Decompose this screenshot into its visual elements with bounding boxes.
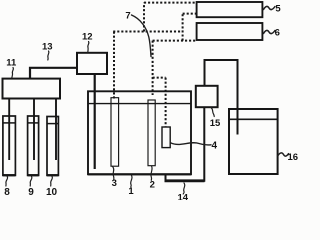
svg-text:4: 4 bbox=[212, 140, 218, 151]
leader 6 (tilde) bbox=[264, 30, 276, 33]
leader 16 (tilde) bbox=[278, 153, 289, 156]
wire dotted vertical to sensor 4 bbox=[165, 78, 167, 127]
electrode 3 bbox=[111, 98, 119, 167]
tube 8 bbox=[3, 116, 16, 175]
sensor 4 bbox=[162, 127, 170, 148]
leader 9 bbox=[30, 177, 32, 187]
wire dotted vertical to electrode 2 bbox=[152, 41, 154, 95]
leader 2 bbox=[151, 166, 152, 180]
tank 16 bbox=[229, 109, 278, 174]
wire dotted vertical x144 bbox=[143, 3, 145, 32]
liquid level in vessel bbox=[89, 103, 191, 105]
wire dotted vertical x182 bbox=[182, 14, 184, 41]
leader lines bbox=[6, 6, 289, 194]
electrode wire from box 12 bbox=[94, 74, 96, 169]
tube 10 bbox=[47, 117, 58, 176]
svg-text:5: 5 bbox=[275, 4, 281, 15]
pipe 14 bbox=[166, 107, 205, 180]
box 5 bbox=[197, 2, 263, 17]
leader 11 bbox=[12, 68, 14, 79]
wire dotted vertical to electrode 3 bbox=[113, 32, 115, 99]
leader 10 bbox=[51, 177, 53, 187]
wire 13 bbox=[30, 68, 77, 79]
svg-text:2: 2 bbox=[150, 179, 155, 190]
wire dotted horizontal to box 6 left bbox=[153, 40, 197, 42]
box 11 bbox=[3, 79, 61, 99]
leader 8 bbox=[6, 177, 8, 187]
svg-text:13: 13 bbox=[42, 42, 53, 53]
wire dotted horizontal to box 5 left bbox=[183, 13, 197, 15]
leader 13 bbox=[48, 51, 49, 60]
leader 15 bbox=[211, 108, 214, 117]
leader 3 bbox=[113, 167, 114, 180]
pipe from 15 to tank 16 bbox=[205, 60, 238, 135]
leader 5 (tilde) bbox=[264, 6, 276, 9]
leader 7 bbox=[132, 15, 152, 57]
svg-text:7: 7 bbox=[125, 10, 130, 21]
wire to tube 9 bbox=[33, 99, 35, 161]
vessel 1 bbox=[88, 91, 191, 174]
pump 15 bbox=[196, 86, 218, 107]
wire dotted branch horizontal y77 bbox=[153, 77, 166, 79]
wire to tube 8 bbox=[8, 99, 10, 161]
wire to tube 10 bbox=[55, 99, 57, 161]
wire dotted horizontal to box 5 top bbox=[144, 2, 197, 4]
svg-text:14: 14 bbox=[178, 192, 189, 200]
svg-text:15: 15 bbox=[210, 118, 221, 129]
svg-text:6: 6 bbox=[275, 27, 280, 38]
svg-text:8: 8 bbox=[4, 187, 10, 198]
leader 4 bbox=[171, 143, 212, 145]
box 6 bbox=[197, 23, 263, 40]
svg-text:16: 16 bbox=[288, 152, 299, 163]
svg-text:11: 11 bbox=[6, 58, 17, 69]
electrode 2 bbox=[148, 100, 155, 166]
leader 12 bbox=[88, 42, 89, 53]
control lines 7 (dotted net) bbox=[113, 3, 196, 127]
svg-text:3: 3 bbox=[112, 178, 117, 189]
wire dotted horizontal y31 bbox=[113, 31, 182, 33]
vessel bottom heavier bbox=[88, 173, 191, 175]
svg-text:12: 12 bbox=[82, 32, 93, 43]
svg-text:10: 10 bbox=[46, 187, 58, 198]
leader 14 bbox=[183, 183, 185, 194]
svg-text:9: 9 bbox=[28, 187, 34, 198]
svg-text:1: 1 bbox=[128, 186, 134, 197]
box 12 bbox=[77, 53, 107, 74]
leader 1 bbox=[131, 176, 132, 188]
liquid level in tank 16 bbox=[229, 118, 278, 120]
tube 9 bbox=[28, 116, 39, 175]
